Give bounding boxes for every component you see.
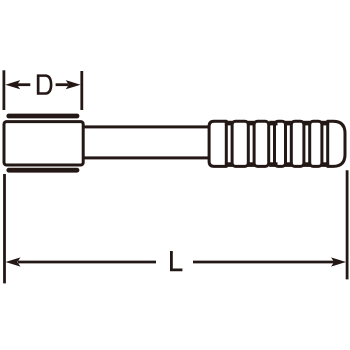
D dimension line right (56, 83, 69, 86)
L dimension line right (193, 261, 335, 264)
D label (37, 74, 53, 94)
L arrowhead right (331, 257, 346, 266)
grip rib 3 (275, 121, 286, 166)
D arrowhead left (5, 80, 20, 89)
grip rib 2 (254, 121, 269, 166)
socket body (4, 122, 83, 165)
grip rib 1 (232, 121, 248, 166)
grip ferrule section (209, 121, 226, 166)
L label (170, 251, 182, 271)
L extension line left (3, 174, 6, 283)
D extension line right (80, 71, 83, 110)
grip rib 5 (310, 121, 322, 166)
grip groove caps bottom (225, 162, 329, 167)
D extension line left (3, 70, 6, 110)
L dimension line left (18, 261, 156, 264)
grip end section (328, 121, 345, 166)
grip rib 4 (291, 121, 304, 166)
L extension line right (346, 170, 349, 279)
shaft (83, 127, 212, 158)
grip groove caps top (225, 121, 329, 126)
D arrowhead right (66, 80, 81, 89)
D dimension line left (17, 83, 30, 86)
L arrowhead left (6, 257, 21, 266)
socket lower collar (6, 168, 79, 173)
socket upper collar (6, 114, 79, 119)
